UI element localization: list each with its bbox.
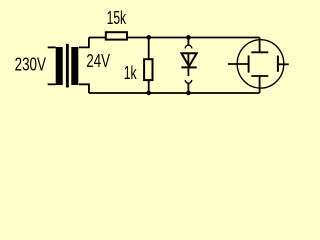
svg-text:15k: 15k [107,7,127,28]
svg-text:1k: 1k [124,62,137,83]
svg-text:230V: 230V [15,54,47,75]
svg-text:24V: 24V [86,50,110,71]
